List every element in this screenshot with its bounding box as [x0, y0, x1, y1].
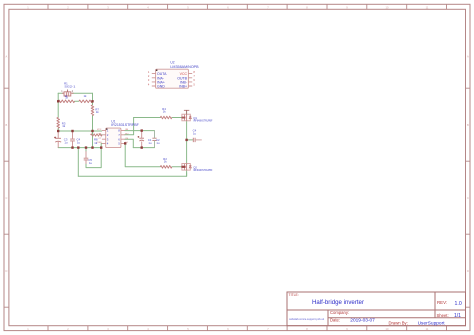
svg-text:1u: 1u — [156, 141, 160, 145]
svg-text:C: C — [467, 196, 469, 200]
svg-text:Date:: Date: — [330, 318, 340, 323]
svg-text:SG2-1: SG2-1 — [64, 85, 76, 89]
svg-text:TITLE:: TITLE: — [289, 293, 299, 297]
svg-text:REV:: REV: — [437, 300, 447, 305]
svg-text:2019-03-07: 2019-03-07 — [350, 317, 375, 323]
svg-text:oshwlab.com/e.support.pcb-s1: oshwlab.com/e.support.pcb-s1 — [289, 317, 325, 321]
svg-text:Company:: Company: — [330, 310, 349, 315]
svg-text:D: D — [5, 269, 7, 273]
svg-text:IR21531STRPBF: IR21531STRPBF — [111, 123, 139, 127]
svg-text:COM: COM — [97, 142, 102, 144]
svg-text:A: A — [6, 54, 8, 58]
svg-text:1/1: 1/1 — [454, 313, 461, 319]
svg-text:1u: 1u — [89, 161, 93, 165]
svg-text:Sheet:: Sheet: — [437, 313, 449, 318]
svg-text:C: C — [5, 196, 7, 200]
svg-text:1u: 1u — [64, 141, 68, 145]
svg-text:VCC: VCC — [97, 129, 102, 131]
svg-text:Half-bridge inverter: Half-bridge inverter — [312, 299, 365, 306]
svg-text:Drawn By:: Drawn By: — [389, 320, 408, 325]
svg-text:GND: GND — [157, 84, 165, 88]
svg-text:LM358AM/NOPB: LM358AM/NOPB — [170, 65, 199, 69]
svg-text:1.0: 1.0 — [455, 301, 462, 307]
svg-text:INB+: INB+ — [179, 84, 187, 88]
svg-text:HO: HO — [125, 133, 129, 135]
svg-text:A: A — [467, 54, 469, 58]
svg-text:B: B — [6, 123, 8, 127]
svg-text:IRF640NSTRLPBF: IRF640NSTRLPBF — [193, 169, 213, 172]
svg-text:UserSupport: UserSupport — [418, 321, 446, 327]
svg-text:IRF640NSTRLPBF: IRF640NSTRLPBF — [193, 120, 213, 123]
svg-text:B: B — [467, 123, 469, 127]
svg-text:1u: 1u — [193, 132, 197, 136]
svg-text:D: D — [467, 269, 469, 273]
svg-text:1u: 1u — [77, 141, 81, 145]
svg-text:1u: 1u — [148, 141, 152, 145]
